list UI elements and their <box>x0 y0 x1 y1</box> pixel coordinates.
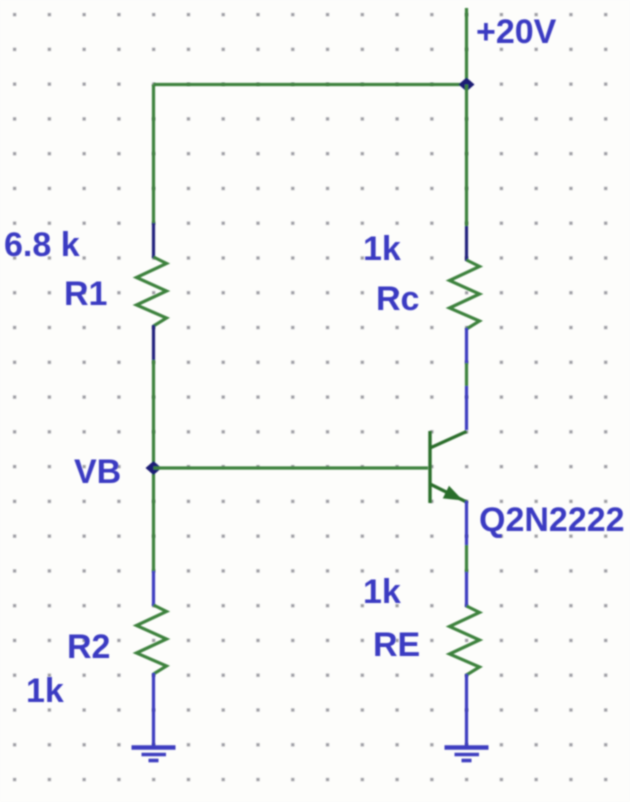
transistor Q1 Q2N2222 <box>430 431 467 503</box>
svg-text:6.8 k: 6.8 k <box>4 226 80 264</box>
svg-text:+20V: +20V <box>476 13 557 51</box>
emitter arrow <box>443 486 463 501</box>
ground (left) <box>132 748 176 761</box>
svg-text:R1: R1 <box>64 275 107 313</box>
svg-text:VB: VB <box>74 453 121 491</box>
wire: collector lead <box>465 386 468 430</box>
svg-text:1k: 1k <box>363 230 401 268</box>
svg-text:Rc: Rc <box>376 280 419 318</box>
wire: base horizontal <box>154 466 429 469</box>
node VB junction dot <box>146 461 162 475</box>
wire: +20V stub down to junction <box>465 8 468 85</box>
wire: left rail mid green <box>152 360 155 571</box>
ground (right) <box>445 748 489 761</box>
node +20V junction dot <box>459 78 475 92</box>
wire: short green above RE <box>465 545 468 572</box>
svg-text:R2: R2 <box>67 628 110 666</box>
svg-text:Q2N2222: Q2N2222 <box>479 501 625 539</box>
wire: Rc top lead <box>465 226 468 261</box>
svg-text:1k: 1k <box>363 573 401 611</box>
wire: left rail upper green <box>152 85 155 224</box>
wire: RE top lead <box>465 572 468 607</box>
wire: Rc bottom lead <box>465 328 468 363</box>
resistor R2 <box>137 605 167 674</box>
wire: R2 bottom lead to ground <box>152 673 155 747</box>
wire: RE bottom lead to ground <box>465 674 468 747</box>
resistor R1 <box>137 257 167 326</box>
wire: emitter lead <box>465 501 468 545</box>
wire: short green below Rc <box>465 363 468 386</box>
wire: R2 top lead <box>152 571 155 606</box>
resistor Rc <box>450 260 480 329</box>
svg-text:RE: RE <box>373 626 420 664</box>
svg-text:1k: 1k <box>26 672 64 710</box>
resistor RE <box>450 606 480 675</box>
wire: R1 top lead <box>152 223 155 258</box>
wire: right rail upper green <box>465 85 468 227</box>
wire: top horizontal rail <box>154 83 467 86</box>
wire: R1 bottom lead <box>152 325 155 360</box>
